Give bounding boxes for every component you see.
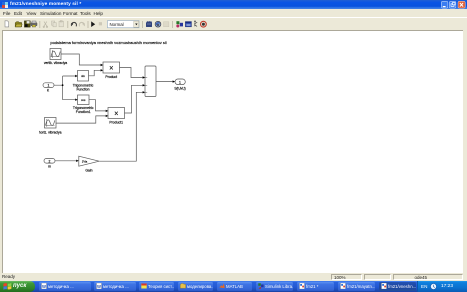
- taskbar: [0, 281, 467, 292]
- stop button (gray): [99, 22, 102, 25]
- svg-text:1: 1: [48, 84, 50, 88]
- svg-text:W: W: [97, 284, 101, 289]
- play button: [91, 21, 95, 27]
- svg-text:2: 2: [49, 159, 51, 163]
- product1 block: [108, 108, 125, 125]
- open folder icon: [15, 21, 22, 26]
- print icon: [31, 21, 37, 27]
- svg-text:S(h,M,t): S(h,M,t): [174, 87, 185, 91]
- svg-text:vertik. vibraciya: vertik. vibraciya: [44, 61, 67, 65]
- trigonometric function1 cos: [73, 95, 94, 114]
- mux block: [145, 66, 156, 97]
- trigonometric function sin: [73, 71, 94, 92]
- svg-text:cos: cos: [81, 98, 86, 102]
- wire sin out to product in2: [89, 70, 101, 76]
- debug person icon: [194, 20, 197, 26]
- grayed icon: [164, 21, 169, 26]
- normal combo: [108, 20, 140, 27]
- teoria sistem button: [139, 282, 174, 292]
- wire cos out to product1 in1: [89, 100, 106, 111]
- fm21/vneshniye button (active): [379, 282, 416, 292]
- svg-text:Product1: Product1: [109, 121, 123, 125]
- paste (gray): [59, 20, 63, 26]
- svg-text:1: 1: [179, 81, 181, 85]
- svg-text:sin: sin: [81, 74, 85, 78]
- outport 1 S(h,M,t): [174, 79, 185, 91]
- inport 2 m: [44, 159, 55, 169]
- svg-text:Product: Product: [105, 75, 117, 79]
- library browser icon: [146, 21, 152, 27]
- window icon: [185, 21, 191, 26]
- simulink library button: [256, 282, 293, 292]
- svg-text:K: K: [47, 89, 50, 93]
- new doc icon: [5, 20, 9, 26]
- start button: [0, 281, 35, 292]
- wire mux out to outport: [156, 81, 173, 83]
- wire inport2 to gain: [55, 160, 76, 162]
- wire gain out to mux in3: [99, 92, 143, 161]
- undo icon: [71, 22, 77, 26]
- svg-text:2*da: 2*da: [82, 160, 88, 164]
- window title bar: [0, 0, 467, 9]
- inport 1 K: [43, 83, 54, 93]
- wire inport1 to branch: [54, 76, 75, 100]
- fm21/mayatnik button: [338, 282, 375, 292]
- svg-text:podsistema formirovaniya vnesh: podsistema formirovaniya vneshnih vozmus…: [50, 40, 166, 45]
- svg-text:horiz. vibraciya: horiz. vibraciya: [39, 130, 62, 134]
- sine wave block vertik. vibraciya: [44, 49, 67, 65]
- redo icon (gray): [79, 22, 85, 26]
- breakpoints icon: [201, 21, 207, 27]
- sine wave block horiz. vibraciya: [39, 118, 62, 135]
- folder button: [178, 282, 213, 292]
- wire sine1 to product in1: [61, 54, 101, 65]
- svg-text:W: W: [42, 284, 46, 289]
- svg-text:Function: Function: [76, 87, 89, 91]
- cut scissors (gray): [43, 21, 48, 27]
- gain block: [79, 156, 99, 172]
- menu bar: [0, 9, 467, 17]
- wire product out to mux in1: [120, 68, 143, 78]
- copy (gray): [52, 21, 57, 27]
- svg-text:Function1: Function1: [76, 110, 91, 114]
- svg-text:Gain: Gain: [85, 168, 92, 172]
- system tray: [417, 281, 467, 292]
- window control buttons: [441, 1, 466, 9]
- product block: [103, 62, 120, 79]
- wire sine2 out to product1 in2: [56, 116, 106, 123]
- matlab button: [217, 282, 252, 292]
- simulink library icon: [176, 21, 183, 27]
- status bar: [0, 273, 467, 281]
- toolbar: [0, 17, 467, 30]
- wire product1 out to mux in2: [125, 85, 143, 113]
- word doc button 2: [94, 282, 136, 292]
- word doc button 1: [39, 282, 91, 292]
- svg-text:m: m: [48, 164, 51, 168]
- save floppy icon: [24, 20, 30, 26]
- model browser icon: [155, 21, 161, 27]
- fm21 button: [297, 282, 334, 292]
